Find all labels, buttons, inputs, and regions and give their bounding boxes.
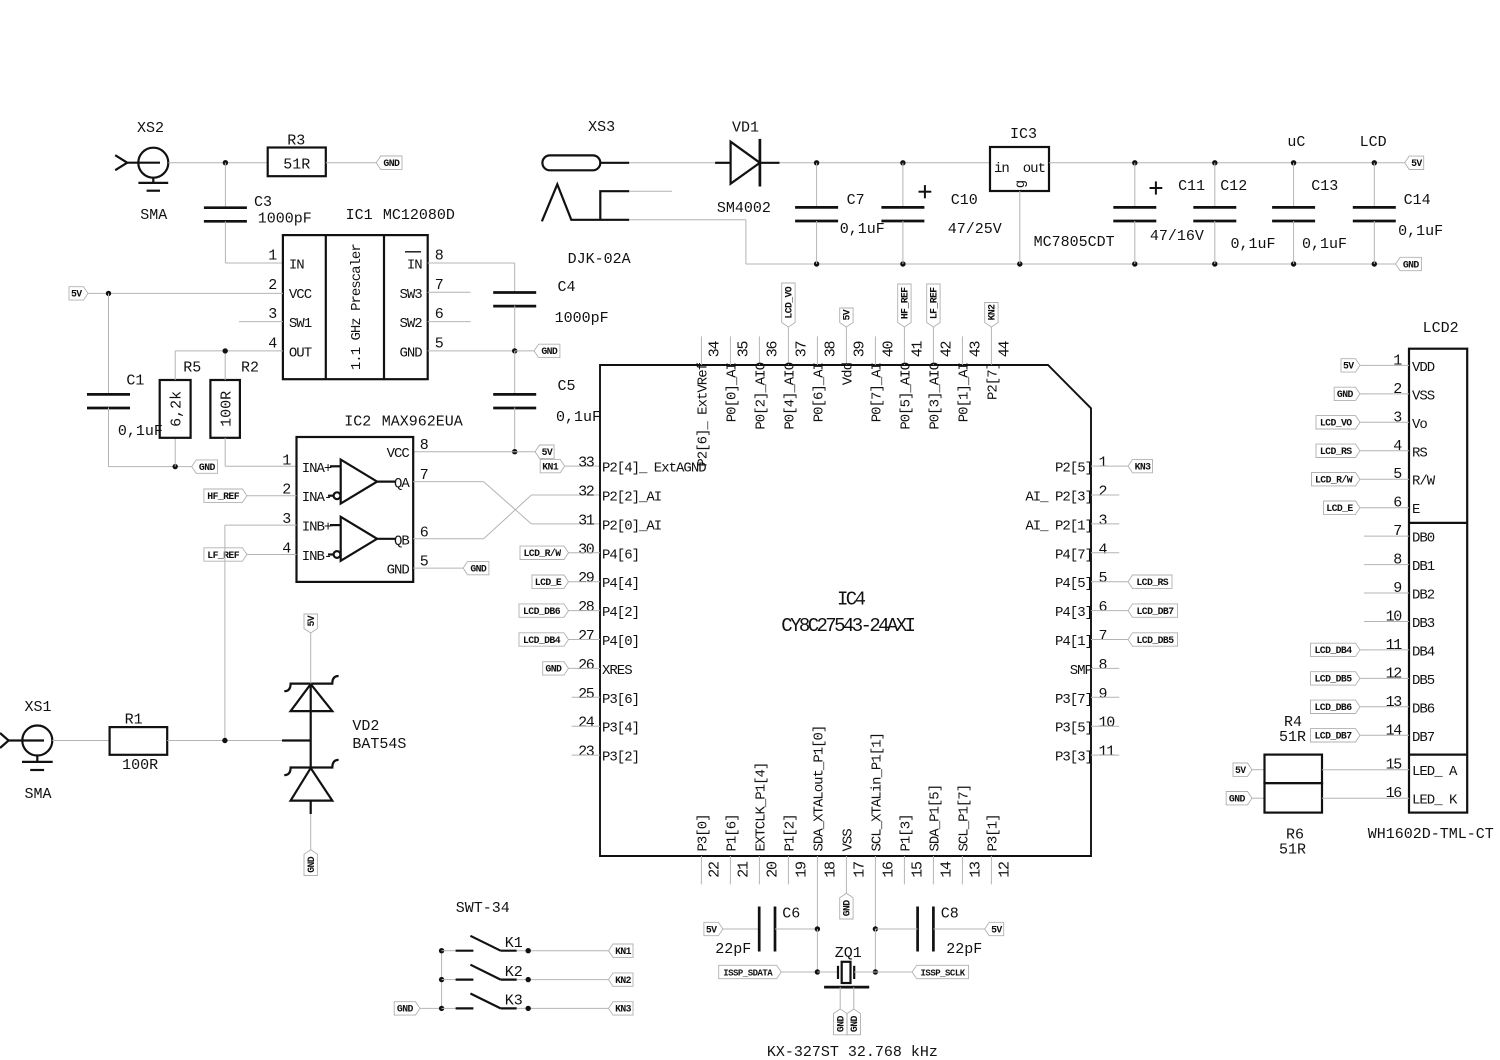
svg-text:42: 42 [938, 342, 955, 358]
IC2 pin 5 GND [387, 554, 429, 579]
wire GND node to C5 [514, 351, 516, 395]
svg-text:out: out [1023, 161, 1045, 177]
junction node R2 top [223, 348, 228, 353]
IC1 pin 1 IN [268, 248, 304, 274]
IC4 pin 34 P2[6]_ ExtVRef [695, 336, 723, 466]
ground flag at switch bus [394, 1002, 420, 1015]
svg-text:SMP: SMP [1070, 663, 1093, 679]
wire IC2 QB to IC4 pin32 (crossover) [413, 538, 483, 540]
svg-text:DJK-02A: DJK-02A [568, 251, 631, 268]
IC2 pin 6 QB [394, 524, 429, 549]
net flag LCD_R/W at IC4 pin 30 [520, 546, 569, 559]
svg-text:P3[3]: P3[3] [1055, 750, 1092, 766]
junction node 5V/C1 [106, 291, 111, 296]
svg-text:43: 43 [967, 341, 984, 358]
svg-text:C13: C13 [1311, 178, 1338, 195]
junction node pin18/C6 [815, 926, 820, 931]
svg-text:5: 5 [435, 335, 444, 352]
svg-text:P2[2]_AI: P2[2]_AI [602, 490, 661, 506]
svg-text:ZQ1: ZQ1 [835, 945, 862, 962]
IC4 pin 31 P2[0]_AI [578, 512, 661, 534]
wire flag to LCD2 pin 2 [1360, 393, 1409, 395]
svg-text:SW2: SW2 [399, 316, 422, 332]
wire flag to LCD2 pin 3 [1360, 421, 1409, 423]
svg-text:P1[3]: P1[3] [898, 814, 914, 851]
svg-text:20: 20 [764, 861, 781, 878]
IC4 pin 5 P4[5] [1055, 570, 1108, 592]
capacitor C12 [1193, 163, 1275, 264]
resistor R5 [160, 360, 202, 438]
wire K2 to KN2 [517, 979, 609, 981]
capacitor C10 electrolytic [881, 163, 1001, 264]
svg-text:LCD_VO: LCD_VO [784, 286, 795, 318]
svg-text:18: 18 [822, 861, 839, 878]
wire IC1 pin8 to C4 [428, 262, 515, 264]
svg-text:2: 2 [268, 277, 276, 294]
svg-text:11: 11 [1386, 637, 1403, 654]
svg-text:P0[2]_AIO: P0[2]_AIO [753, 362, 769, 429]
svg-text:5: 5 [1393, 466, 1402, 483]
IC4 pin 40 P0[7]_AI [869, 336, 897, 422]
net flag LCD_E at LCD2 pin 6 [1324, 501, 1361, 514]
svg-text:32: 32 [578, 484, 594, 501]
svg-text:33: 33 [578, 455, 595, 472]
svg-text:LCD_DB6: LCD_DB6 [1315, 702, 1353, 713]
LCD2 pin 11 DB4 [1386, 637, 1435, 661]
svg-text:51R: 51R [283, 156, 310, 173]
svg-text:INA-: INA- [302, 490, 332, 506]
svg-text:C14: C14 [1404, 192, 1431, 209]
wire IC3 ground pin [1019, 191, 1021, 264]
svg-text:1: 1 [268, 248, 277, 265]
wire 5V to IC1 VCC [88, 292, 283, 294]
IC4 pin 1 P2[5] [1055, 455, 1108, 477]
svg-text:MC12080D: MC12080D [383, 207, 455, 224]
svg-text:GND: GND [397, 1004, 414, 1015]
svg-text:13: 13 [967, 861, 984, 878]
svg-text:13: 13 [1386, 694, 1403, 711]
svg-text:GND: GND [1229, 794, 1246, 805]
wire XS2 to R3 [168, 162, 267, 164]
wire stub IC1 SW1 [239, 321, 283, 323]
capacitor C14 [1353, 163, 1443, 264]
junction node C10 top [900, 160, 905, 165]
wire flag to LCD2 pin 13 [1360, 706, 1409, 708]
svg-text:LCD: LCD [1360, 134, 1387, 151]
ground flag at C4/C5 [534, 344, 560, 357]
net flag 5V at IC4 pin 39 [840, 308, 853, 327]
svg-text:9: 9 [1393, 580, 1401, 597]
capacitor C3 [204, 194, 312, 228]
wire C8 to pin16 node [875, 928, 917, 930]
svg-text:VDD: VDD [1412, 360, 1435, 376]
IC4 pin 38 P0[6]_AI [811, 336, 839, 422]
svg-text:LCD_VO: LCD_VO [1320, 418, 1352, 429]
wire C6 to XTALout node [775, 928, 817, 930]
svg-text:22pF: 22pF [946, 941, 982, 958]
svg-text:WH1602D-TML-CT: WH1602D-TML-CT [1368, 826, 1494, 843]
IC2 pin 1 INA+ [282, 452, 332, 477]
net flag LCD_RS at LCD2 pin 4 [1316, 444, 1360, 457]
svg-text:10: 10 [1386, 609, 1403, 626]
LCD2 pin 1 VDD [1393, 352, 1435, 376]
svg-text:P2[5]: P2[5] [1055, 461, 1092, 477]
svg-text:VCC: VCC [387, 446, 410, 462]
svg-text:DB1: DB1 [1412, 559, 1435, 575]
wire stub LCD2 pin 10 [1364, 621, 1409, 623]
svg-text:GND: GND [470, 563, 487, 574]
IC1 pin 6 SW2 [399, 306, 443, 332]
svg-text:LCD_DB6: LCD_DB6 [523, 606, 561, 617]
wire IC2 INB+ to R1 node [225, 524, 297, 526]
svg-text:K3: K3 [505, 993, 523, 1010]
junction node bus K1 [439, 948, 444, 953]
wire node to C3 [224, 163, 226, 209]
svg-text:KX-327ST 32.768 kHz: KX-327ST 32.768 kHz [767, 1044, 938, 1060]
svg-text:P2[4]_ ExtAGND: P2[4]_ ExtAGND [602, 461, 706, 477]
svg-text:100R: 100R [218, 391, 235, 427]
junction node bus K3 [439, 1006, 444, 1011]
wire stub IC4 pin 24 [572, 725, 600, 727]
svg-text:P4[4]: P4[4] [602, 576, 639, 592]
power flag 5V at C6 [704, 922, 723, 935]
svg-text:GND: GND [387, 563, 410, 579]
svg-text:LCD_DB7: LCD_DB7 [1137, 606, 1175, 617]
LCD2 pin 14 DB7 [1386, 722, 1435, 746]
svg-text:GND: GND [836, 1016, 847, 1033]
IC4 pin 3 AI_ P2[1] [1025, 512, 1107, 534]
ground flag at IC2 pin 5 [463, 561, 489, 574]
wire stub LCD2 pin 8 [1364, 564, 1409, 566]
svg-text:C1: C1 [126, 373, 144, 390]
svg-text:40: 40 [880, 341, 897, 358]
junction node R1/INB+/VD2 [222, 738, 227, 743]
svg-text:23: 23 [578, 744, 595, 761]
svg-text:KN1: KN1 [542, 461, 559, 472]
svg-text:SCL_XTALin_P1[1]: SCL_XTALin_P1[1] [869, 733, 885, 851]
svg-text:IC4: IC4 [837, 589, 866, 611]
wire C8 to 5V [934, 928, 985, 930]
svg-text:R/W: R/W [1412, 474, 1436, 490]
IC4 pin 17 VSS [840, 829, 868, 894]
wire 5V to VD2 [310, 633, 312, 684]
svg-text:C4: C4 [558, 279, 576, 296]
junction node crystal left [815, 969, 820, 974]
svg-text:14: 14 [1386, 722, 1403, 739]
svg-text:0,1uF: 0,1uF [1302, 236, 1347, 253]
wire flag to IC4 pin 26 [569, 667, 601, 669]
IC4 pin 22 P3[0] [695, 814, 723, 884]
IC4 pin 26 XRES [578, 657, 632, 679]
wire flag to LCD2 pin 14 [1360, 734, 1409, 736]
net flag LCD_DB6 at IC4 pin 28 [519, 604, 569, 617]
svg-text:QA: QA [394, 476, 410, 492]
svg-text:C5: C5 [558, 378, 576, 395]
wire R5 bottom [174, 438, 176, 467]
svg-text:LCD_DB5: LCD_DB5 [1315, 674, 1353, 685]
svg-text:3: 3 [1099, 512, 1108, 529]
svg-text:DB0: DB0 [1412, 531, 1435, 547]
svg-text:K1: K1 [505, 935, 523, 952]
net flag LCD_DB6 at LCD2 pin 13 [1311, 700, 1361, 713]
svg-text:8: 8 [1393, 552, 1402, 569]
svg-text:3: 3 [268, 306, 277, 323]
svg-text:LCD_R/W: LCD_R/W [524, 548, 562, 559]
svg-text:5V: 5V [1411, 158, 1422, 169]
IC IC1 MC12080D prescaler [283, 207, 455, 379]
svg-text:47/25V: 47/25V [948, 221, 1002, 238]
power flag 5V at rail [1405, 156, 1424, 169]
svg-text:6: 6 [435, 306, 444, 323]
wire stub IC1 SW3 [428, 291, 471, 293]
wire stub IC1 SW2 [428, 321, 471, 323]
net flag KN1 at IC4 pin 33 [540, 459, 565, 472]
IC4 pin 13 SCL_P1[7] [956, 785, 984, 884]
power flag 5V at IC2 VCC [535, 445, 554, 458]
junction node ground rail [1132, 261, 1137, 266]
svg-text:P0[1]_AI: P0[1]_AI [956, 363, 972, 422]
svg-text:IC3: IC3 [1010, 126, 1037, 143]
svg-text:IC1: IC1 [346, 207, 373, 224]
svg-text:P1[2]: P1[2] [782, 814, 798, 851]
wire 5V to R4 [1252, 769, 1265, 771]
svg-text:SCL_P1[7]: SCL_P1[7] [956, 785, 972, 852]
connector XS1 (SMA input) [0, 699, 53, 803]
svg-text:8: 8 [1099, 657, 1108, 674]
svg-text:XS2: XS2 [137, 120, 164, 137]
svg-text:VSS: VSS [1412, 388, 1435, 404]
svg-text:KN1: KN1 [615, 946, 632, 957]
svg-text:25: 25 [578, 686, 595, 703]
IC4 pin 44 P2[7] [985, 327, 1013, 400]
LCD2 pin 10 DB3 [1386, 609, 1435, 633]
svg-text:VD2: VD2 [352, 718, 379, 735]
LCD2 pin 9 DB2 [1393, 580, 1435, 604]
IC2 pin 8 VCC [387, 437, 429, 462]
net flag GND at LCD2 pin 2 [1334, 387, 1360, 400]
svg-text:Vdd: Vdd [840, 362, 856, 385]
svg-text:3: 3 [1393, 409, 1402, 426]
svg-text:HF_REF: HF_REF [900, 287, 911, 319]
power flag 5V at IC1 VCC [69, 287, 88, 300]
ground flag at power rail [1396, 257, 1422, 270]
wire R1 to VD2 node [167, 740, 282, 742]
svg-text:12: 12 [1386, 665, 1402, 682]
svg-text:5V: 5V [306, 615, 317, 626]
svg-text:GND: GND [399, 345, 422, 361]
svg-text:IC2: IC2 [344, 414, 371, 431]
wire C4 to GND node [514, 306, 516, 351]
svg-text:C6: C6 [782, 906, 800, 923]
wire flag to IC4 pin 27 [569, 639, 601, 641]
svg-text:MC7805CDT: MC7805CDT [1034, 234, 1115, 251]
wire crystal to ISSP_SCLK [875, 971, 912, 973]
net flag LCD_DB7 at LCD2 pin 14 [1311, 729, 1361, 742]
capacitor C8 [918, 906, 983, 959]
svg-text:GND: GND [1403, 259, 1420, 270]
svg-text:QB: QB [394, 533, 409, 549]
svg-text:SW3: SW3 [399, 287, 422, 303]
IC1 pin 8 IN [405, 248, 444, 274]
svg-text:BAT54S: BAT54S [352, 736, 406, 753]
svg-text:28: 28 [578, 599, 595, 616]
IC4 pin 12 P3[1] [985, 814, 1013, 884]
svg-text:LCD_DB5: LCD_DB5 [1137, 635, 1175, 646]
svg-text:1.1 GHz Prescaler: 1.1 GHz Prescaler [349, 244, 365, 370]
svg-text:6: 6 [1393, 495, 1402, 512]
IC IC4 CY8C27543-24AXI [600, 365, 1091, 856]
net flag LCD_RS at IC4 pin 5 [1128, 575, 1172, 588]
svg-text:OUT: OUT [289, 345, 312, 361]
net flag KN3 [609, 1002, 634, 1015]
IC4 pin 37 P0[4]_AIO [782, 327, 810, 430]
svg-text:uC: uC [1287, 134, 1305, 151]
net flag 5V at LCD2 pin 1 [1341, 359, 1360, 372]
IC1 pin 4 OUT [268, 335, 311, 361]
net flag LCD_DB5 at LCD2 pin 12 [1311, 672, 1361, 685]
LCD2 pin 4 RS [1393, 438, 1427, 462]
svg-text:DB5: DB5 [1412, 673, 1435, 689]
ground flag at crystal case left [834, 1009, 847, 1035]
svg-text:SMA: SMA [140, 207, 167, 224]
junction node 5V rail [1212, 160, 1217, 165]
svg-text:38: 38 [822, 341, 839, 358]
wire flag to LCD2 pin 12 [1360, 677, 1409, 679]
net flag LCD_VO at IC4 pin 37 [782, 283, 795, 327]
wire switch common bus [441, 951, 443, 1009]
svg-text:17: 17 [851, 862, 868, 878]
svg-text:0,1uF: 0,1uF [118, 423, 163, 440]
wire flag to IC4 pin 30 [569, 552, 601, 554]
svg-text:VCC: VCC [289, 287, 312, 303]
IC4 pin 41 P0[5]_AIO [898, 327, 926, 430]
svg-text:11: 11 [1099, 744, 1116, 761]
svg-text:GND: GND [306, 856, 317, 873]
crystal case ground electrode [824, 986, 869, 989]
svg-text:XRES: XRES [602, 663, 632, 679]
diode VD2 BAT54S dual schottky [282, 676, 406, 814]
resistor R6 [1265, 783, 1323, 858]
wire stub IC4 pin 9 [1091, 696, 1119, 698]
svg-text:P3[5]: P3[5] [1055, 721, 1092, 737]
svg-text:AI_ P2[3]: AI_ P2[3] [1025, 490, 1092, 506]
connector XS2 (SMA input) [115, 120, 168, 224]
svg-text:R1: R1 [125, 712, 143, 729]
svg-text:27: 27 [578, 628, 594, 645]
svg-text:P3[2]: P3[2] [602, 750, 639, 766]
svg-text:LCD_R/W: LCD_R/W [1315, 475, 1353, 486]
svg-text:12: 12 [996, 862, 1013, 878]
wire R2 bottom to IC2 INA+ [224, 438, 226, 467]
svg-text:DB4: DB4 [1412, 644, 1435, 660]
IC4 pin 24 P3[4] [578, 715, 639, 737]
wire stub IC4 pin 23 [572, 754, 600, 756]
svg-text:XS1: XS1 [25, 699, 52, 716]
svg-text:LCD_DB4: LCD_DB4 [1315, 645, 1353, 656]
capacitor C4 [493, 279, 608, 327]
wire R6 to LED_K [1322, 797, 1409, 799]
svg-text:C12: C12 [1220, 178, 1247, 195]
junction node ground rail [1212, 261, 1217, 266]
resistor R4 [1265, 714, 1323, 783]
wire IC4 pin 6 to flag [1091, 610, 1128, 612]
wire flag to LCD2 pin 1 [1360, 364, 1409, 366]
net flag KN2 [609, 973, 634, 986]
junction node K3 contact [526, 1006, 531, 1011]
svg-text:ISSP_SCLK: ISSP_SCLK [921, 968, 966, 978]
junction node bus K2 [439, 977, 444, 982]
svg-text:CY8C27543-24AXI: CY8C27543-24AXI [781, 615, 914, 637]
IC4 pin 27 P4[0] [578, 628, 639, 650]
svg-text:P0[5]_AIO: P0[5]_AIO [898, 362, 914, 429]
junction node 5V rail [1132, 160, 1137, 165]
IC2 pin 4 INB- [282, 541, 331, 566]
svg-text:SMA: SMA [25, 786, 52, 803]
svg-text:HF_REF: HF_REF [207, 491, 239, 502]
IC1 pin 7 SW3 [399, 277, 442, 303]
svg-text:4: 4 [268, 335, 277, 352]
svg-text:Vo: Vo [1412, 417, 1427, 433]
svg-text:7: 7 [435, 277, 443, 294]
wire IC4 pin 7 to flag [1091, 639, 1128, 641]
ground flag at C1/R5 [192, 460, 218, 473]
wire XS3 sleeve to ground rail [629, 219, 746, 221]
svg-text:SDA_XTALout_P1[0]: SDA_XTALout_P1[0] [811, 726, 827, 852]
svg-text:P0[6]_AI: P0[6]_AI [811, 363, 827, 422]
wire to 5V flag [515, 451, 535, 453]
svg-text:41: 41 [909, 341, 926, 358]
svg-text:7: 7 [1099, 628, 1107, 645]
crystal ZQ1 KX-327ST 32.768 kHz [767, 945, 938, 1060]
svg-text:2: 2 [1393, 381, 1401, 398]
junction node K1 contact [526, 948, 531, 953]
IC1 pin 2 VCC [268, 277, 311, 303]
wire 5V to C6 [723, 928, 759, 930]
LCD2 pin 5 R/W [1393, 466, 1436, 490]
svg-text:1: 1 [1099, 455, 1108, 472]
wire LF_REF to INB- [247, 554, 297, 556]
IC4 pin 8 SMP [1070, 657, 1108, 679]
junction node R5 bottom [173, 464, 178, 469]
net flag LCD_DB5 at IC4 pin 7 [1128, 633, 1178, 646]
wire stub XS3 switch contact [629, 190, 672, 192]
svg-text:P3[6]: P3[6] [602, 692, 639, 708]
IC4 pin 33 P2[4]_ ExtAGND [578, 455, 706, 477]
svg-text:C11: C11 [1178, 178, 1205, 195]
svg-text:5V: 5V [1343, 361, 1354, 372]
svg-text:g: g [1013, 180, 1029, 188]
switch K2 [442, 964, 523, 981]
junction node XS2/C3 [223, 160, 228, 165]
svg-text:DB2: DB2 [1412, 588, 1435, 604]
IC4 pin 4 P4[7] [1055, 541, 1108, 563]
svg-text:P3[4]: P3[4] [602, 721, 639, 737]
IC4 pin 25 P3[6] [578, 686, 639, 708]
svg-text:INA+: INA+ [302, 461, 332, 477]
IC2 pin 3 INB+ [282, 511, 332, 536]
svg-text:P2[6]_ ExtVRef: P2[6]_ ExtVRef [695, 362, 711, 466]
svg-text:C10: C10 [951, 192, 978, 209]
svg-text:GND: GND [1337, 389, 1354, 400]
wire HF_REF to INA- [247, 495, 297, 497]
svg-text:8: 8 [420, 437, 429, 454]
svg-text:R5: R5 [183, 360, 201, 377]
wire flag to LCD2 pin 11 [1360, 649, 1409, 651]
svg-text:1000pF: 1000pF [555, 310, 609, 327]
svg-text:44: 44 [996, 341, 1013, 358]
wire flag to IC4 pin 29 [569, 581, 601, 583]
svg-text:22: 22 [706, 862, 723, 878]
